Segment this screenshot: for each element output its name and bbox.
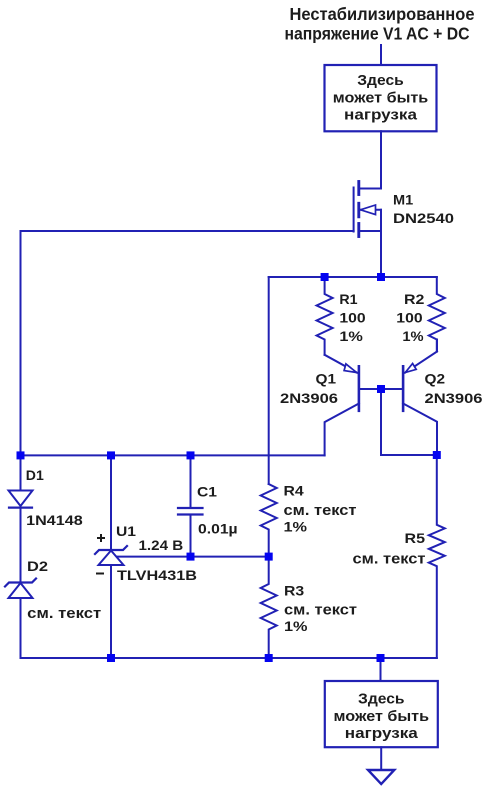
svg-text:см. текст: см. текст (353, 551, 426, 568)
resistor R4 (261, 484, 277, 557)
svg-text:нагрузка: нагрузка (345, 725, 419, 742)
svg-text:R2: R2 (404, 291, 425, 307)
shunt reference U1 (95, 546, 127, 565)
load box top (325, 65, 437, 131)
node C1 bottom junction (187, 553, 195, 561)
svg-text:может быть: может быть (334, 708, 430, 725)
wire U1 ref line to divider (117, 556, 269, 558)
node gate D1 junction (17, 451, 25, 459)
svg-text:см. текст: см. текст (284, 502, 357, 519)
wire D1 to D2 (20, 508, 22, 583)
svg-text:R1: R1 (339, 291, 357, 307)
svg-text:см. текст: см. текст (284, 601, 357, 618)
wire M1 gate (21, 231, 354, 455)
wire bottom rail (21, 657, 437, 659)
junction squares (17, 273, 441, 662)
svg-text:R4: R4 (284, 483, 304, 499)
svg-text:1N4148: 1N4148 (26, 512, 83, 528)
wire U1 anode to bottom rail (110, 565, 112, 658)
svg-text:напряжение V1 AC + DC: напряжение V1 AC + DC (285, 23, 470, 43)
svg-text:Q1: Q1 (316, 370, 337, 386)
wire top box to M1 drain (359, 131, 381, 188)
diode D1 (9, 491, 33, 508)
wire output sense drop to R4 (268, 277, 270, 484)
node R5 top junction (433, 451, 441, 459)
resistor R5 (429, 455, 445, 658)
wire load box to ground (380, 747, 382, 769)
wire D2 to bottom rail (20, 598, 22, 658)
svg-text:Q2: Q2 (425, 370, 446, 386)
svg-text:1%: 1% (402, 328, 424, 344)
wire left bias rail (21, 454, 325, 456)
transistor Q2 (381, 340, 437, 456)
wire output rail (269, 276, 437, 278)
node divider mid junction (265, 553, 273, 561)
svg-text:R3: R3 (284, 582, 304, 598)
svg-text:D1: D1 (26, 467, 44, 483)
node R3 bottom junction (265, 654, 273, 662)
node M1 source junction (377, 273, 385, 281)
load box bottom (325, 681, 438, 747)
wire bottom rail to load box (380, 658, 382, 681)
node Q1 Q2 base junction (377, 385, 385, 393)
node C1 top junction (187, 451, 195, 459)
svg-text:R5: R5 (405, 530, 426, 546)
svg-text:100: 100 (339, 310, 366, 326)
svg-text:2N3906: 2N3906 (280, 390, 338, 406)
svg-text:Здесь: Здесь (357, 72, 404, 89)
wire U1 cathode (110, 455, 112, 550)
wire rail to D1 (20, 455, 22, 490)
svg-text:1.24 В: 1.24 В (139, 537, 184, 553)
wire Q base node down and over to R5 top (381, 389, 437, 455)
transistor Q1 (325, 355, 381, 456)
svg-text:100: 100 (396, 310, 423, 326)
svg-text:Здесь: Здесь (358, 691, 405, 708)
svg-text:DN2540: DN2540 (393, 210, 454, 226)
node U1 anode bottom junction (107, 654, 115, 662)
resistor R1 (317, 281, 333, 355)
resistor R2 (429, 277, 445, 352)
node load bottom junction (377, 654, 385, 662)
svg-text:1%: 1% (284, 519, 308, 535)
svg-text:1%: 1% (339, 328, 363, 344)
svg-text:U1: U1 (116, 523, 136, 539)
svg-text:см. текст: см. текст (27, 605, 101, 622)
zener D2 (5, 579, 36, 599)
svg-text:D2: D2 (27, 558, 48, 574)
svg-text:0.01µ: 0.01µ (198, 521, 238, 537)
svg-text:нагрузка: нагрузка (344, 107, 418, 124)
svg-text:Нестабилизированное: Нестабилизированное (290, 4, 475, 24)
U1 plus minus marks (96, 534, 105, 574)
svg-text:C1: C1 (197, 484, 217, 500)
node U1 cathode junction (107, 451, 115, 459)
ground (368, 770, 394, 784)
svg-text:1%: 1% (284, 618, 308, 634)
wire title to top box (380, 45, 382, 65)
node R1 top junction (321, 273, 329, 281)
svg-text:может быть: может быть (333, 89, 429, 106)
svg-text:M1: M1 (393, 192, 413, 208)
svg-text:TLVH431B: TLVH431B (117, 567, 197, 583)
wire M1 source to output rail (380, 231, 382, 277)
capacitor C1 (178, 455, 203, 556)
svg-text:2N3906: 2N3906 (425, 390, 483, 406)
resistor R3 (261, 557, 277, 658)
transistor M1 (354, 182, 381, 237)
